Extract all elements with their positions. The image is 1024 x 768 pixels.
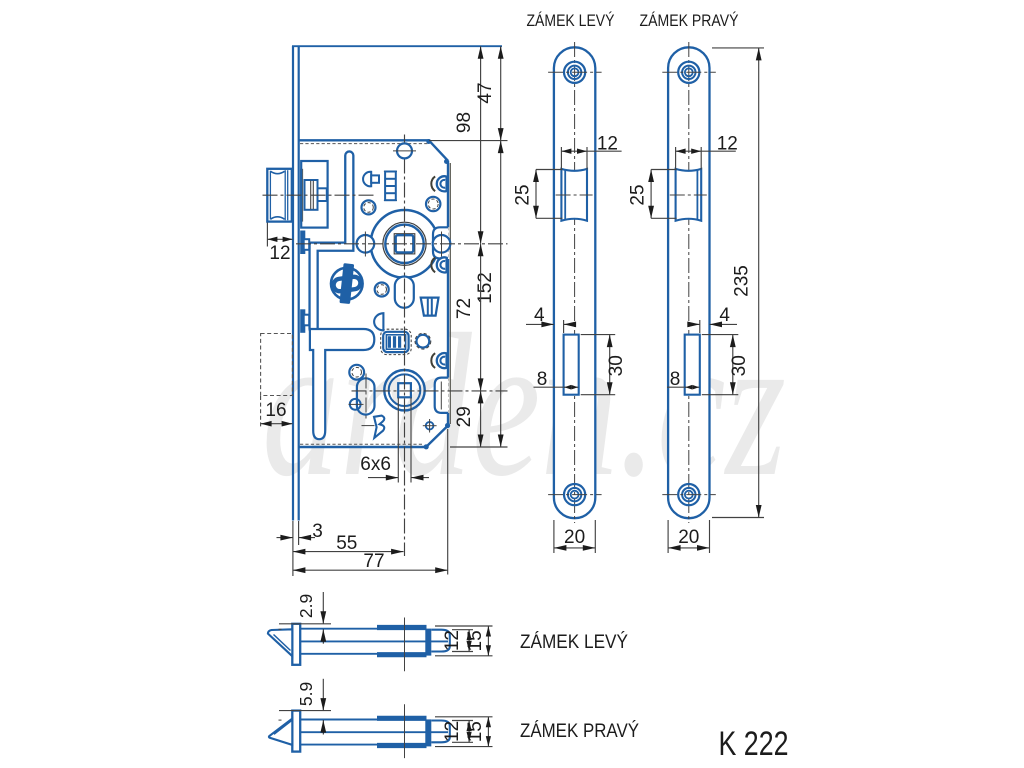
dim 29: [480, 391, 482, 447]
svg-text:12: 12: [597, 134, 618, 155]
shaft lines: [300, 719, 378, 721]
svg-text:8: 8: [670, 369, 681, 390]
faceplate clip lower: [300, 309, 305, 333]
side flange: [292, 711, 300, 752]
svg-text:ZÁMEK LEVÝ: ZÁMEK LEVÝ: [520, 632, 628, 653]
boss U3: [431, 353, 435, 368]
bucket part: [421, 298, 439, 316]
dim extension lines right: [429, 140, 508, 142]
dim 4 plate: [563, 320, 565, 333]
faceplate strip (front view): [292, 46, 294, 521]
svg-text:55: 55: [336, 533, 357, 554]
dim 12 side: [452, 629, 473, 631]
centerline latch axis: [263, 194, 376, 196]
svg-text:47: 47: [475, 82, 496, 103]
lever arm + stem: [310, 329, 374, 439]
latch body inside case: [301, 161, 327, 228]
dim 6x6: [397, 398, 399, 483]
oval slot under follower: [395, 277, 414, 308]
top screw hole on case edge: [397, 143, 412, 158]
latch guide shadow strip: [300, 169, 303, 222]
svg-text:12: 12: [717, 134, 738, 155]
tail: [431, 721, 450, 743]
D half-stadium: [374, 313, 383, 330]
faceplate outline: [554, 47, 595, 518]
battery part (tumbler pack): [381, 329, 412, 354]
svg-text:ZÁMEK PRAVÝ: ZÁMEK PRAVÝ: [640, 11, 739, 30]
dim 15 side: [435, 716, 493, 718]
svg-text:ZÁMEK LEVÝ: ZÁMEK LEVÝ: [527, 11, 615, 30]
dim 12 plate: [560, 147, 562, 170]
boss U1: [431, 176, 435, 191]
deadbolt cutout: [685, 335, 700, 395]
side latch head wedge: [269, 719, 292, 745]
svg-text:235: 235: [732, 265, 753, 297]
dim 47: [500, 46, 502, 140]
side centerline: [404, 618, 406, 672]
svg-text:30: 30: [729, 355, 750, 376]
plate centerline: [574, 42, 576, 523]
follower hub (handle spindle): [371, 210, 439, 278]
dim 30 plate: [581, 334, 616, 336]
dim 20 plate: [553, 520, 555, 553]
phillips screw: [331, 268, 363, 300]
latch cutout: [561, 169, 587, 221]
svg-text:20: 20: [678, 527, 699, 548]
top screw hole: [564, 62, 585, 83]
shaft lines: [300, 628, 378, 630]
latch cutout: [676, 169, 702, 221]
svg-text:16: 16: [265, 400, 286, 421]
centerline follower axis: [296, 243, 508, 245]
tail: [431, 630, 450, 652]
svg-text:4: 4: [534, 305, 545, 326]
dim 30 plate: [702, 334, 739, 336]
arrow-shaped spring anchor: [363, 172, 371, 187]
deadbolt hidden (dashed): [261, 334, 293, 396]
svg-text:25: 25: [513, 184, 534, 205]
svg-text:12: 12: [442, 721, 463, 742]
faceplate clip upper: [300, 231, 305, 255]
case hidden dashed lines: [300, 143, 428, 145]
dim 8 plate: [667, 386, 685, 388]
key hub: [384, 370, 424, 410]
plate centerline: [688, 42, 690, 523]
svg-text:20: 20: [564, 527, 585, 548]
case edge shadow: [449, 163, 451, 424]
dim 55: [293, 551, 404, 553]
svg-text:8: 8: [537, 369, 548, 390]
svg-text:98: 98: [454, 112, 475, 133]
lock case outline: [299, 139, 429, 141]
centerline key axis: [352, 390, 508, 392]
dim 12 side: [452, 720, 473, 722]
svg-text:K 222: K 222: [719, 725, 789, 763]
svg-text:72: 72: [454, 298, 475, 319]
right edge keyhole notch: [435, 378, 448, 413]
svg-text:12: 12: [269, 243, 290, 264]
faceplate outline: [668, 47, 709, 518]
dim 15 side: [435, 625, 493, 627]
side latch head wedge: [268, 629, 292, 656]
deadbolt cutout: [564, 335, 579, 395]
top edge extension line: [292, 45, 502, 47]
svg-text:29: 29: [454, 406, 475, 427]
divider bar: [425, 629, 431, 656]
svg-text:6x6: 6x6: [360, 454, 391, 475]
dim 72: [480, 244, 482, 391]
dim 12 plate: [675, 147, 677, 170]
svg-text:4: 4: [719, 305, 730, 326]
svg-text:15: 15: [465, 630, 486, 651]
stadium + circle left of key hub: [350, 399, 361, 410]
svg-text:15: 15: [465, 721, 486, 742]
latch bolt head (protruding left): [267, 169, 292, 222]
side centerline: [404, 704, 406, 758]
dim 12 (latch): [266, 223, 268, 247]
svg-text:30: 30: [606, 355, 627, 376]
svg-text:25: 25: [628, 184, 649, 205]
divider bar: [425, 719, 431, 746]
svg-text:77: 77: [363, 551, 384, 572]
dim 20 plate: [667, 520, 669, 553]
dim 77: [447, 429, 449, 575]
side flange: [292, 624, 300, 665]
dim 4 plate: [699, 320, 701, 333]
dim 98: [480, 46, 482, 244]
dim 235: [712, 47, 764, 49]
screw post B: [426, 197, 440, 211]
svg-text:ZÁMEK PRAVÝ: ZÁMEK PRAVÝ: [520, 721, 639, 742]
svg-text:5.9: 5.9: [296, 682, 316, 706]
svg-text:152: 152: [475, 272, 496, 304]
top screw hole: [678, 62, 699, 83]
junction dots: [426, 139, 431, 144]
dim 3 (faceplate thickness): [292, 521, 294, 576]
dim 152: [500, 141, 502, 447]
target screw bottom right: [426, 422, 434, 430]
B-shaped stop: [374, 416, 384, 438]
dim 16 (deadbolt): [260, 396, 262, 428]
spring wire (double line): [314, 156, 350, 330]
screw post C: [375, 283, 389, 297]
dim 8 plate: [534, 386, 564, 388]
follower right lobe + edge notch: [433, 227, 448, 258]
svg-text:2.9: 2.9: [296, 594, 316, 618]
boss U2: [431, 258, 435, 273]
ladder part: [384, 170, 397, 172]
follower left lobe: [357, 235, 375, 253]
bottom screw hole: [678, 484, 699, 505]
screw post A: [362, 200, 376, 214]
svg-text:3: 3: [312, 521, 323, 542]
screw post E: [349, 365, 364, 380]
svg-text:12: 12: [442, 630, 463, 651]
bottom screw hole: [564, 484, 585, 505]
centerline vertical spindle: [404, 135, 406, 557]
offset dim: [279, 710, 331, 712]
offset dim: [279, 623, 331, 625]
screw post D: [417, 335, 430, 348]
dim 25 plate: [651, 169, 677, 171]
dim 25 plate: [536, 169, 562, 171]
